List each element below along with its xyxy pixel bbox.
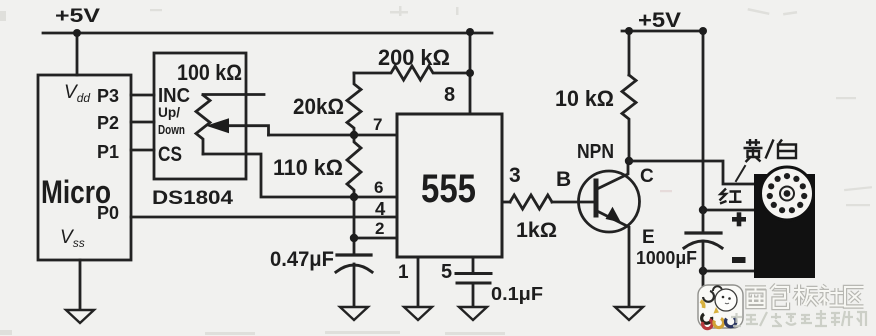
wire pin5 to cap — [472, 257, 475, 273]
svg-text:P3: P3 — [97, 86, 119, 106]
wire cap to ground — [472, 283, 475, 307]
ground 0.47uF — [340, 307, 368, 320]
wire pin3 — [502, 201, 510, 204]
wire 1k to base — [552, 201, 596, 204]
node dot rail-micro — [73, 29, 81, 37]
svg-text:6: 6 — [374, 178, 383, 197]
motor face circle — [761, 167, 814, 220]
micro U1 box — [38, 75, 131, 260]
svg-text:P1: P1 — [97, 142, 119, 162]
label plus — [732, 212, 746, 226]
+5V rail right — [622, 30, 703, 33]
wire pin8 to rail — [469, 32, 472, 114]
svg-text:20kΩ: 20kΩ — [293, 94, 344, 119]
wire node7 to 555 — [269, 134, 398, 137]
node dot collector — [625, 157, 633, 165]
svg-text:CS: CS — [158, 143, 182, 166]
resistor R 10k zigzag — [622, 75, 636, 161]
potentiometer zigzag — [196, 95, 210, 154]
node dot 6 — [350, 193, 358, 201]
wire P2 to UpDown — [131, 121, 154, 124]
svg-text:Up/: Up/ — [158, 105, 180, 120]
wire Vdd to rail — [76, 33, 79, 75]
wire node6 to node2 — [354, 197, 397, 238]
svg-text:8: 8 — [444, 84, 455, 106]
svg-text:100 kΩ: 100 kΩ — [177, 60, 242, 85]
resistor 110k zigzag — [347, 135, 361, 197]
motor screw dots — [767, 173, 808, 213]
svg-text:NPN: NPN — [577, 141, 614, 163]
capacitor C2 0.1uF plates — [456, 272, 491, 275]
svg-text:+5V: +5V — [55, 6, 100, 27]
svg-text:2: 2 — [375, 219, 384, 238]
wire P3 to INC — [131, 94, 154, 97]
watermark text mianbaoban shequ — [745, 285, 864, 309]
node dot 200k-pin8 — [466, 69, 474, 77]
watermark logo — [698, 285, 743, 329]
node dot rail-pin8 — [466, 28, 474, 36]
wire +5V to motor red — [702, 31, 705, 210]
svg-text:P0: P0 — [97, 203, 119, 223]
svg-text:4: 4 — [375, 198, 386, 219]
motor hub — [780, 187, 794, 201]
resistor R2 1k zigzag — [510, 195, 552, 209]
svg-text:200 kΩ: 200 kΩ — [378, 45, 450, 70]
ground 0.1uF — [459, 307, 487, 320]
label huang/bai (yellow/white) — [744, 139, 797, 162]
timer U3 555 box — [397, 114, 502, 257]
+5V rail left — [43, 32, 492, 35]
resistor 200k zigzag — [354, 66, 470, 80]
capacitor C3 1000uF — [684, 210, 722, 271]
wire node2 to cap — [353, 238, 356, 254]
pointer line yellow/white — [736, 166, 745, 181]
svg-text:555: 555 — [421, 167, 476, 211]
svg-text:10 kΩ: 10 kΩ — [555, 86, 614, 111]
node dot red — [699, 206, 707, 214]
wire P1 to CS — [131, 149, 154, 152]
wire pot top terminal — [203, 93, 264, 96]
svg-text:B: B — [556, 168, 571, 191]
watermark subtitle — [731, 310, 866, 326]
svg-text:1kΩ: 1kΩ — [516, 219, 557, 242]
wire pot wiper — [228, 126, 269, 135]
svg-text:3: 3 — [509, 164, 521, 187]
svg-text:C: C — [640, 166, 654, 187]
svg-text:INC: INC — [158, 85, 190, 107]
emitter arrowhead — [606, 207, 622, 223]
node dot 7 — [350, 131, 358, 139]
transistor Q1 NPN — [579, 161, 640, 307]
svg-text:Down: Down — [158, 122, 185, 137]
node dot rail right motor — [699, 27, 707, 35]
svg-text:7: 7 — [373, 115, 382, 134]
resistor 20k zigzag — [347, 73, 361, 135]
capacitor C1 0.47uF — [336, 255, 372, 307]
ground micro — [66, 310, 94, 323]
wire collector to motor yellow/white — [629, 161, 758, 184]
wire 1000uF to motor minus — [703, 270, 756, 273]
svg-text:E: E — [642, 227, 655, 248]
label hong (red) — [720, 189, 742, 204]
svg-text:0.1μF: 0.1μF — [491, 284, 543, 304]
wire red +5V to motor — [703, 209, 756, 212]
node dot rail right 10k — [625, 27, 633, 35]
svg-text:P2: P2 — [97, 113, 119, 133]
wire 10k column — [628, 31, 631, 75]
ground pin1 — [404, 307, 432, 320]
motor M1 body — [754, 174, 815, 278]
pot wiper arrow — [206, 118, 229, 133]
char bai — [778, 140, 796, 159]
wire pin1 to ground — [417, 257, 420, 307]
wire P0 to 555 pin4 — [131, 216, 397, 219]
svg-text:0.47μF: 0.47μF — [270, 248, 334, 271]
wire Vss to ground — [79, 260, 82, 310]
svg-text:+5V: +5V — [638, 9, 681, 32]
svg-text:1: 1 — [398, 262, 409, 283]
slash — [766, 140, 774, 159]
digital pot U2 DS1804 box — [154, 53, 246, 179]
svg-text:DS1804: DS1804 — [152, 188, 233, 209]
svg-text:5: 5 — [441, 261, 452, 283]
char huang — [744, 139, 763, 162]
svg-text:110 kΩ: 110 kΩ — [273, 155, 343, 180]
wire cap bottom to ground — [702, 271, 705, 290]
node dot 2 — [350, 234, 358, 242]
svg-text:1000μF: 1000μF — [636, 248, 697, 268]
node dot cap bottom — [699, 267, 707, 275]
wire pot bottom terminal to node6 — [203, 154, 397, 197]
ground emitter — [615, 307, 643, 320]
label minus — [732, 257, 746, 263]
